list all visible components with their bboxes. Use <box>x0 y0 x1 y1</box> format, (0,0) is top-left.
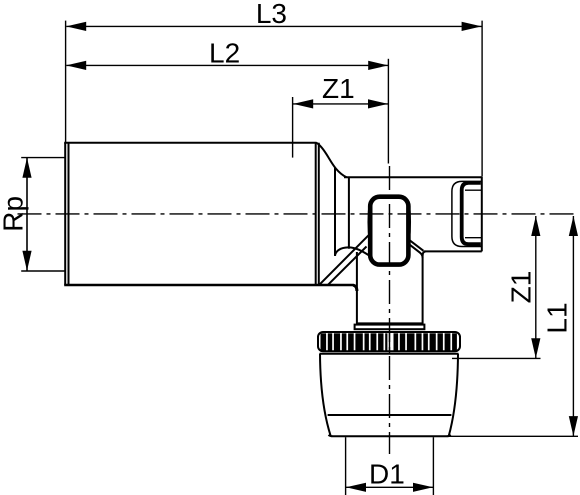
extension line right (L3) <box>481 21 483 176</box>
gusset web left (two diagonals) <box>319 234 370 285</box>
branch tube walls <box>353 251 426 323</box>
horizontal centerline <box>18 213 578 215</box>
press sleeve <box>320 354 458 437</box>
end nut (right, side view) <box>452 181 482 246</box>
dimension L1 <box>572 216 574 436</box>
collar under branch <box>355 325 425 330</box>
leader L1 bottom <box>449 435 578 437</box>
svg-text:Z1: Z1 <box>322 73 355 104</box>
svg-text:L1: L1 <box>542 302 573 333</box>
dimension Z1 top <box>293 103 388 105</box>
Rp extension ticks <box>21 157 65 159</box>
svg-text:L3: L3 <box>256 0 287 29</box>
ring lower rim <box>320 353 459 355</box>
dimension Z1 right <box>535 216 537 358</box>
svg-text:D1: D1 <box>369 459 405 490</box>
leader Z1 right <box>452 357 541 359</box>
dimension D1 <box>346 486 433 488</box>
branch union nut (square front view) <box>370 197 408 265</box>
dimension L2 <box>66 64 388 66</box>
extension line left (L3/L2) <box>65 21 67 143</box>
branch tube bottom edge <box>356 322 424 324</box>
D1 extension lines <box>345 437 347 495</box>
extension line branch axis (L2/Z1) <box>387 59 389 164</box>
press ring (knurled) <box>318 332 460 351</box>
svg-text:L2: L2 <box>209 38 240 69</box>
nut side contours <box>368 202 369 242</box>
taper edge line 1 <box>334 167 336 256</box>
gusset web right <box>408 239 423 258</box>
svg-text:Rp: Rp <box>0 196 29 232</box>
arrowheads <box>66 22 86 31</box>
branch saddle curve <box>335 247 370 256</box>
vertical centerline <box>389 166 391 454</box>
centerline segment through knurl slot <box>389 332 391 355</box>
fitting body: threaded socket cylinder <box>64 143 319 285</box>
dimension Rp <box>26 158 28 271</box>
taper edge line 2 <box>348 177 350 249</box>
body bottom edge <box>64 284 353 286</box>
extension line Z1 left <box>292 97 294 158</box>
svg-text:Z1: Z1 <box>506 271 537 304</box>
body taper curve to right section <box>316 143 346 178</box>
dimension L3 <box>66 25 481 27</box>
right section (small cylinder) <box>344 176 482 251</box>
